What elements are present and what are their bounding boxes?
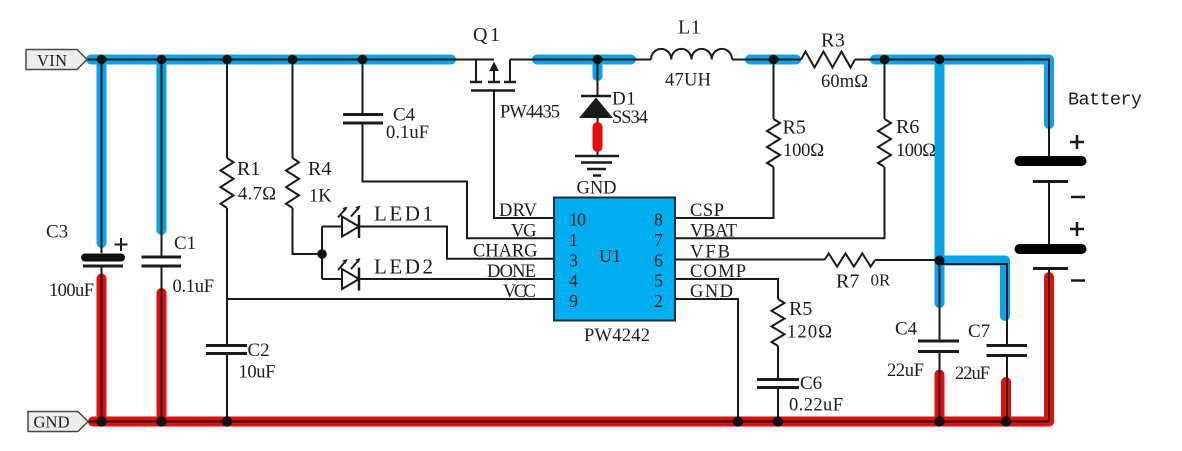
wire R3 to battery corner bbox=[855, 60, 1049, 157]
svg-text:120Ω: 120Ω bbox=[787, 323, 832, 343]
capacitor C4 (22uF) bbox=[918, 341, 959, 352]
wire C4 bottom to VG pin 1 bbox=[363, 124, 555, 238]
wire switch node blue band bbox=[537, 55, 631, 65]
wire L1 to R3 blue band bbox=[750, 55, 796, 65]
svg-text:8: 8 bbox=[654, 210, 663, 230]
svg-text:10uF: 10uF bbox=[239, 363, 276, 383]
wire battery cell link bbox=[1048, 182, 1050, 245]
wire R7 to battery sense node bbox=[875, 259, 940, 261]
wire LED2 anode bbox=[322, 278, 342, 280]
wire C6 to GND bus bbox=[777, 388, 779, 422]
svg-text:9: 9 bbox=[569, 291, 578, 311]
wire L1 to R3 bbox=[732, 59, 801, 61]
wire battery sense node to C7 bbox=[941, 264, 1007, 346]
svg-text:100Ω: 100Ω bbox=[896, 141, 936, 161]
svg-text:COMP: COMP bbox=[690, 262, 746, 282]
svg-text:D1: D1 bbox=[612, 89, 636, 110]
svg-text:Q1: Q1 bbox=[473, 24, 502, 46]
capacitor C2 (10uF) bbox=[206, 346, 247, 354]
wire C1 to GND bus bbox=[161, 266, 163, 422]
svg-text:4.7Ω: 4.7Ω bbox=[238, 185, 276, 205]
wire R4 top bbox=[292, 60, 294, 159]
svg-text:C7: C7 bbox=[968, 321, 990, 342]
svg-text:6: 6 bbox=[654, 251, 663, 271]
svg-text:CSP: CSP bbox=[690, 201, 724, 221]
ground symbol GND (D1) bbox=[575, 156, 619, 176]
net label GND bbox=[28, 412, 88, 432]
wire VFB pin 6 to R7 bbox=[675, 259, 825, 261]
svg-text:4: 4 bbox=[569, 271, 578, 291]
wire VBAT sense blue drop bbox=[935, 65, 945, 304]
wire D1 anode to GND symbol bbox=[597, 118, 599, 156]
wire battery bottom to red bbox=[1048, 269, 1050, 422]
svg-text:VCC: VCC bbox=[503, 282, 536, 302]
svg-text:U1: U1 bbox=[599, 246, 621, 266]
wire C1 top blue drop bbox=[157, 65, 167, 231]
wire C2 to GND bus bbox=[226, 355, 228, 422]
svg-text:0R: 0R bbox=[871, 271, 892, 290]
svg-text:C4: C4 bbox=[895, 319, 918, 340]
svg-text:PW4435: PW4435 bbox=[500, 103, 560, 123]
wire VCC pin 9 bbox=[227, 298, 554, 300]
wire VIN rail centerline bbox=[86, 59, 494, 61]
svg-text:GND: GND bbox=[690, 282, 733, 302]
svg-text:VFB: VFB bbox=[690, 243, 730, 263]
svg-text:R3: R3 bbox=[821, 30, 845, 52]
wire LED1 anode bbox=[322, 226, 342, 228]
net label VIN bbox=[26, 50, 87, 71]
battery bbox=[1015, 156, 1087, 166]
svg-text:C6: C6 bbox=[800, 373, 822, 394]
svg-text:SS34: SS34 bbox=[612, 108, 648, 128]
wire D1 red stub bbox=[593, 127, 603, 147]
svg-text:C1: C1 bbox=[174, 233, 196, 254]
wire D1 blue stub bbox=[593, 65, 603, 77]
wire C4 22uF red drop bbox=[935, 375, 945, 418]
capacitor C4 (0.1uF bootstrap) bbox=[343, 115, 383, 124]
wire VIN top rail blue band left bbox=[91, 55, 451, 65]
wire C3 top blue drop bbox=[97, 65, 107, 244]
wire C1 column bbox=[161, 60, 163, 257]
wire C3 bottom red drop bbox=[97, 279, 107, 416]
svg-text:VBAT: VBAT bbox=[690, 222, 737, 242]
wire C7 red drop bbox=[1001, 382, 1011, 417]
svg-text:1K: 1K bbox=[309, 187, 332, 207]
transistor Q1 bbox=[470, 60, 516, 91]
svg-text:22uF: 22uF bbox=[887, 361, 924, 381]
wire R1 top bbox=[226, 60, 228, 159]
wire battery sense column bbox=[939, 260, 941, 341]
wire C1 bottom red drop bbox=[157, 293, 167, 415]
svg-text:Battery: Battery bbox=[1068, 90, 1142, 111]
resistor R5 (100 top) bbox=[767, 119, 780, 167]
svg-text:1: 1 bbox=[569, 230, 578, 250]
resistor R1 bbox=[221, 158, 234, 208]
resistor R3 bbox=[801, 52, 855, 68]
wire R5 120 to C6 bbox=[777, 346, 779, 379]
svg-text:R1: R1 bbox=[237, 158, 260, 180]
svg-text:0.22uF: 0.22uF bbox=[789, 396, 843, 416]
wire LED2 cathode to DONE pin 4 bbox=[359, 278, 554, 280]
wire R6 bottom to VBAT pin 7 bbox=[675, 167, 885, 238]
wire LED1 cathode to CHARG pin 3 bbox=[359, 227, 554, 259]
svg-text:R5: R5 bbox=[783, 117, 806, 139]
svg-text:R7: R7 bbox=[836, 271, 859, 293]
wire GND bus centerline bbox=[88, 421, 1049, 423]
wire C4 top bbox=[362, 60, 364, 115]
op-amp U1 PW4242 bbox=[554, 198, 675, 321]
wire C3 column bbox=[101, 60, 103, 254]
wire R3 to battery + blue band with corner bbox=[875, 60, 1049, 125]
svg-text:GND: GND bbox=[577, 179, 617, 199]
svg-text:R6: R6 bbox=[896, 116, 919, 138]
capacitor C7 bbox=[987, 346, 1028, 356]
svg-text:60mΩ: 60mΩ bbox=[821, 72, 868, 92]
svg-text:PW4242: PW4242 bbox=[584, 326, 650, 346]
resistor R5 (120 bottom) bbox=[772, 299, 785, 346]
svg-text:47UH: 47UH bbox=[665, 71, 711, 91]
resistor R7 bbox=[825, 253, 876, 266]
wire Q1 drain to L1 bbox=[510, 59, 651, 61]
pin labels right bbox=[690, 201, 746, 302]
svg-text:DRV: DRV bbox=[499, 201, 538, 221]
wire battery - return red bbox=[1044, 277, 1054, 422]
svg-text:7: 7 bbox=[654, 230, 663, 250]
inductor L1 bbox=[651, 49, 732, 60]
svg-text:DONE: DONE bbox=[487, 262, 536, 282]
wire R5 bottom to CSP pin 8 bbox=[675, 167, 774, 218]
svg-text:CHARG: CHARG bbox=[473, 242, 538, 262]
svg-text:R5: R5 bbox=[789, 298, 812, 320]
capacitor C1 (0.1uF) bbox=[142, 257, 182, 266]
wire GND bottom red bus bbox=[93, 417, 1049, 427]
wire R1 bottom to C2 bbox=[226, 208, 228, 345]
wire D1 top bbox=[597, 60, 599, 97]
wire GND pin 2 to bus bbox=[675, 299, 738, 422]
svg-text:100uF: 100uF bbox=[49, 281, 94, 301]
svg-text:C2: C2 bbox=[248, 340, 270, 361]
svg-text:100Ω: 100Ω bbox=[783, 141, 824, 161]
svg-text:L1: L1 bbox=[678, 17, 701, 39]
wire Q1 gate to DRV pin 10 bbox=[494, 92, 554, 219]
wire C4 22uF to GND bus bbox=[939, 352, 941, 422]
wire R5 top bbox=[773, 60, 775, 120]
svg-text:5: 5 bbox=[654, 271, 663, 291]
svg-text:C3: C3 bbox=[46, 222, 68, 243]
svg-text:10: 10 bbox=[569, 210, 586, 230]
resistor R4 bbox=[286, 158, 299, 208]
capacitor C3 (100uF electrolytic) bbox=[81, 254, 125, 262]
wire C7 to GND bus bbox=[1006, 356, 1008, 422]
svg-text:VIN: VIN bbox=[37, 51, 67, 70]
svg-text:R4: R4 bbox=[308, 158, 331, 180]
wire blue branch to C7 bbox=[945, 261, 1006, 317]
wire LED node vertical bbox=[321, 227, 323, 280]
LED LED1 bbox=[338, 209, 359, 238]
svg-text:0.1uF: 0.1uF bbox=[386, 123, 429, 143]
pin labels left bbox=[473, 201, 538, 302]
svg-text:22uF: 22uF bbox=[955, 364, 990, 384]
svg-text:0.1uF: 0.1uF bbox=[173, 277, 215, 297]
wire R4 bottom to LED node bbox=[293, 208, 323, 254]
svg-text:VG: VG bbox=[511, 222, 537, 242]
wire COMP pin 5 to R5 120 bbox=[675, 279, 778, 299]
svg-text:2: 2 bbox=[654, 291, 663, 311]
resistor R6 bbox=[878, 119, 891, 167]
wire R6 top bbox=[884, 60, 886, 120]
capacitor C6 bbox=[757, 380, 799, 388]
diode D1 bbox=[581, 95, 611, 98]
svg-text:GND: GND bbox=[34, 413, 70, 432]
svg-text:3: 3 bbox=[569, 251, 578, 271]
wire C3 to GND bus bbox=[101, 267, 103, 422]
LED LED2 bbox=[338, 262, 359, 291]
